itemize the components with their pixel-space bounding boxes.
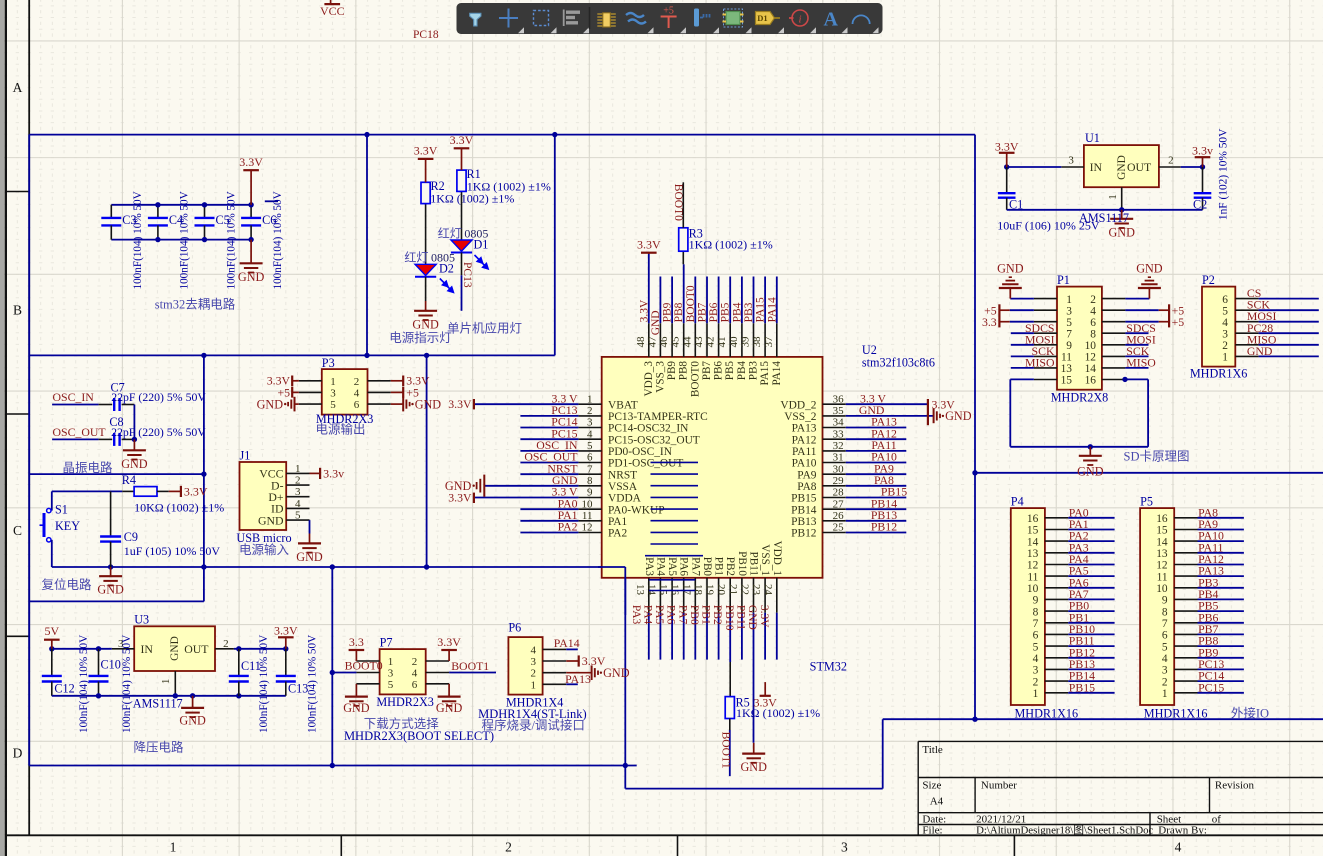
svg-text:2: 2 xyxy=(1033,676,1039,688)
U2 pin 3 PC14-OSC32_IN xyxy=(578,427,601,429)
power port 3.3V above P7 pin2 xyxy=(448,650,450,661)
svg-text:3.3V: 3.3V xyxy=(184,485,208,499)
svg-text:BOOT0: BOOT0 xyxy=(685,285,697,322)
svg-text:27: 27 xyxy=(833,498,845,510)
P7 pin row 2 leads xyxy=(356,672,379,674)
svg-text:5: 5 xyxy=(1066,317,1072,329)
svg-text:VSSA: VSSA xyxy=(608,481,638,493)
P5 pin 15 PA9 xyxy=(1174,529,1197,531)
svg-text:OSC_OUT: OSC_OUT xyxy=(53,425,107,439)
svg-text:A: A xyxy=(13,80,23,95)
svg-text:25: 25 xyxy=(833,522,845,534)
junction at 975,719 xyxy=(972,717,977,722)
svg-text:2: 2 xyxy=(587,405,593,417)
junction at 367,135 xyxy=(364,132,369,137)
svg-text:24: 24 xyxy=(762,584,774,596)
svg-text:GND: GND xyxy=(238,270,265,284)
J1 pin 4 ID xyxy=(286,507,309,509)
svg-text:38: 38 xyxy=(751,336,763,348)
svg-text:PA4: PA4 xyxy=(654,557,666,576)
svg-text:16: 16 xyxy=(1156,513,1168,525)
ground below P1 loop xyxy=(1089,447,1091,456)
stray wire stub right of C6 xyxy=(265,200,278,202)
svg-text:1KΩ (1002) ±1%: 1KΩ (1002) ±1% xyxy=(430,192,514,206)
svg-text:45: 45 xyxy=(670,336,682,348)
U2 pin 18 PB0 bottom xyxy=(706,578,708,613)
svg-text:Drawn By:: Drawn By: xyxy=(1158,825,1207,837)
svg-text:VDD_3: VDD_3 xyxy=(643,361,655,397)
svg-text:PC14-OSC32_IN: PC14-OSC32_IN xyxy=(608,423,688,435)
svg-text:7: 7 xyxy=(1162,618,1168,630)
svg-text:PB0: PB0 xyxy=(688,605,700,625)
U2 pin 37 PA14 top xyxy=(776,323,778,357)
regulator U1 AMS1117 xyxy=(1084,145,1159,187)
J1 pin 2 D- xyxy=(286,484,309,486)
svg-text:40: 40 xyxy=(728,336,740,348)
U2 pin 36 VDD_2 xyxy=(823,403,846,405)
U2 pin 44 BOOT0 top xyxy=(694,323,696,357)
svg-text:8: 8 xyxy=(1033,606,1039,618)
resistor R3 on BOOT0 column xyxy=(682,251,684,264)
svg-text:3.3V: 3.3V xyxy=(414,144,438,158)
svg-text:1uF (105) 10% 50V: 1uF (105) 10% 50V xyxy=(124,544,221,558)
P5 pin 2 PC14 xyxy=(1174,680,1197,682)
svg-text:D1: D1 xyxy=(757,13,767,23)
svg-text:电源指示灯: 电源指示灯 xyxy=(389,330,452,345)
U2 pin 9 VDDA xyxy=(578,497,601,499)
wire U3 input 5V rail xyxy=(52,648,112,650)
svg-text:GND: GND xyxy=(1247,344,1273,358)
svg-text:MHDR1X16: MHDR1X16 xyxy=(1144,707,1208,721)
P3 pin row 3 leads xyxy=(299,403,322,405)
svg-text:11: 11 xyxy=(1157,571,1168,583)
svg-text:GND: GND xyxy=(97,583,124,597)
P5 pin 16 PA8 xyxy=(1174,517,1197,519)
net label OSC_OUT with wire xyxy=(52,438,99,440)
svg-text:GND: GND xyxy=(650,310,662,335)
svg-text:22: 22 xyxy=(739,584,751,595)
svg-text:3.3V: 3.3V xyxy=(448,491,472,505)
P1 pin row 3-4 xyxy=(1034,309,1057,311)
net label OSC_IN with wire xyxy=(52,404,99,406)
P4 pin 16 PA0 xyxy=(1045,517,1068,519)
svg-text:4: 4 xyxy=(1222,317,1228,329)
power port 3.3V above U2 pin48 xyxy=(648,253,650,254)
U2 pin 40 PB4 top xyxy=(741,323,743,357)
wire S1 bottom xyxy=(51,540,53,567)
svg-text:GND: GND xyxy=(412,317,439,331)
svg-text:PB9: PB9 xyxy=(666,361,678,381)
P5 pin 1 PC15 xyxy=(1174,692,1197,694)
LED D2 arrows xyxy=(440,279,454,293)
svg-text:Size: Size xyxy=(922,780,941,792)
svg-text:43: 43 xyxy=(693,336,705,348)
wire S1 top to R4 xyxy=(51,491,53,510)
svg-text:VSS_1: VSS_1 xyxy=(759,544,771,576)
connector P6 MHDR1X4 xyxy=(508,637,542,695)
svg-text:U1: U1 xyxy=(1085,131,1100,145)
connector P7 MHDR2X3 xyxy=(380,649,426,694)
svg-text:9: 9 xyxy=(1033,595,1039,607)
power port 3.3 above P7 pin1 xyxy=(355,650,357,661)
svg-text:BOOT0: BOOT0 xyxy=(689,361,701,397)
svg-text:GND: GND xyxy=(343,701,370,715)
J1 pin 3 D+ xyxy=(286,496,309,498)
svg-text:OUT: OUT xyxy=(184,642,209,656)
svg-text:KEY: KEY xyxy=(55,519,80,533)
svg-text:31: 31 xyxy=(833,452,844,464)
P7 pin row 3 leads xyxy=(356,683,379,685)
ground below C6 xyxy=(250,240,252,264)
wire left border vertical xyxy=(28,135,30,766)
svg-text:Title: Title xyxy=(922,744,943,756)
capacitor C13 xyxy=(285,649,287,676)
wire rail y765 xyxy=(29,765,637,767)
wire U1 ground rail xyxy=(1007,209,1203,211)
svg-text:PA9: PA9 xyxy=(797,469,817,481)
P2 pin 1 GND xyxy=(1235,355,1258,357)
power port 5V xyxy=(51,640,53,649)
svg-text:C13: C13 xyxy=(288,682,308,696)
U2 pin 16 PA6 bottom xyxy=(683,578,685,613)
svg-text:PB4: PB4 xyxy=(731,302,743,322)
U3 pin 3 lead xyxy=(112,648,134,650)
U2 pin 25 PB12 xyxy=(823,532,846,534)
svg-text:12: 12 xyxy=(1027,560,1039,572)
svg-text:MHDR1X6: MHDR1X6 xyxy=(1190,367,1248,381)
svg-text:OSC_IN: OSC_IN xyxy=(53,390,95,404)
svg-text:1: 1 xyxy=(1066,294,1072,306)
U3 pin 2 lead xyxy=(215,648,234,650)
svg-text:3.3v: 3.3v xyxy=(323,467,344,481)
P4 pin 15 PA1 xyxy=(1045,529,1068,531)
svg-text:PB7: PB7 xyxy=(697,302,709,322)
svg-text:32: 32 xyxy=(833,440,844,452)
svg-text:红灯: 红灯 xyxy=(404,250,428,265)
svg-text:3: 3 xyxy=(1066,305,1072,317)
U2 pin 22 PB11 bottom xyxy=(753,578,755,613)
P1 signal rows left labels xyxy=(1011,332,1034,334)
junction C6 top xyxy=(248,202,253,207)
svg-text:4: 4 xyxy=(295,498,301,510)
P5 pin 7 PB6 xyxy=(1174,622,1197,624)
wire right bus vertical xyxy=(974,135,976,720)
svg-text:PA13: PA13 xyxy=(792,423,817,435)
svg-text:File:: File: xyxy=(922,825,942,837)
wire J1 GND down xyxy=(309,520,311,533)
svg-text:3.3v: 3.3v xyxy=(1192,144,1213,158)
ground below D2 xyxy=(425,301,427,311)
toolbar icon selection rect xyxy=(534,11,549,26)
junction dot C8 xyxy=(132,437,137,442)
wire D2 cathode to ground xyxy=(425,277,427,301)
P3 pin row 1 leads xyxy=(299,380,322,382)
P1 pin row 7-8 xyxy=(1034,332,1057,334)
svg-text:100nF(104) 10% 50V: 100nF(104) 10% 50V xyxy=(258,635,270,733)
ground below U3 xyxy=(192,696,194,708)
svg-text:AMS1117: AMS1117 xyxy=(133,697,183,711)
U2 pin 23 VSS_1 bottom xyxy=(764,578,766,613)
capacitor C1 xyxy=(1006,167,1008,193)
svg-text:13: 13 xyxy=(1027,548,1039,560)
svg-text:12: 12 xyxy=(1085,352,1097,364)
svg-text:电源输入: 电源输入 xyxy=(239,542,290,557)
power port 3.3V below U2 pins pointing down xyxy=(764,682,766,696)
wire U3 output rail xyxy=(234,648,286,650)
P5 pin 8 PB5 xyxy=(1174,610,1197,612)
svg-text:3.3: 3.3 xyxy=(349,635,364,649)
wire main 3.3V rail top xyxy=(29,134,975,136)
svg-text:15: 15 xyxy=(1027,525,1039,537)
svg-text:P3: P3 xyxy=(322,356,335,370)
svg-text:3: 3 xyxy=(1068,155,1074,167)
svg-text:5: 5 xyxy=(1162,641,1168,653)
P2 pin 2 MISO xyxy=(1235,344,1258,346)
power port 3.3V at U3 output xyxy=(285,637,287,649)
svg-text:5: 5 xyxy=(1033,641,1039,653)
svg-text:GND: GND xyxy=(415,397,442,411)
svg-text:PA2: PA2 xyxy=(608,528,628,540)
capacitor C7 horizontal xyxy=(99,404,113,406)
svg-text:P5: P5 xyxy=(1140,495,1153,509)
svg-text:1KΩ (1002) ±1%: 1KΩ (1002) ±1% xyxy=(689,238,773,252)
ground far left of U2 pin8 sideways xyxy=(483,475,485,497)
svg-text:8: 8 xyxy=(1162,606,1168,618)
resistor R4 horizontal xyxy=(122,490,134,492)
toolbar icon arc xyxy=(853,15,870,24)
P1 pin row 9-10 xyxy=(1034,344,1057,346)
svg-text:PC18: PC18 xyxy=(413,29,439,41)
P1 pin row 13-14 xyxy=(1034,367,1057,369)
power port 3.3V above R2 xyxy=(425,159,427,182)
svg-text:100nF(104) 10% 50V: 100nF(104) 10% 50V xyxy=(307,635,319,733)
power port 3.3V left of U1 xyxy=(1006,153,1008,167)
svg-text:PD0-OSC_IN: PD0-OSC_IN xyxy=(608,446,672,458)
junction at 555,135 xyxy=(552,132,557,137)
U2 pin 30 PA9 xyxy=(823,473,846,475)
svg-text:19: 19 xyxy=(704,584,716,596)
svg-text:VDD_2: VDD_2 xyxy=(780,399,816,411)
svg-text:10: 10 xyxy=(582,498,594,510)
svg-text:2: 2 xyxy=(1162,676,1168,688)
svg-text:C12: C12 xyxy=(54,682,74,696)
svg-text:2: 2 xyxy=(354,376,360,388)
svg-text:PB11: PB11 xyxy=(748,552,760,576)
svg-text:PB12: PB12 xyxy=(791,528,817,540)
svg-text:3.3V: 3.3V xyxy=(637,238,661,252)
svg-text:100nF(104) 10% 50V: 100nF(104) 10% 50V xyxy=(225,191,237,289)
svg-text:GND: GND xyxy=(258,513,284,527)
junction C5 bottom xyxy=(202,237,207,242)
svg-text:4: 4 xyxy=(1090,305,1096,317)
svg-text:PA3: PA3 xyxy=(630,605,642,625)
svg-text:D: D xyxy=(13,746,23,761)
svg-text:电源输出: 电源输出 xyxy=(315,422,365,437)
wire bus to P7 pin3 xyxy=(332,672,356,674)
U2 pin 1 VBAT xyxy=(578,403,601,405)
svg-text:C2: C2 xyxy=(1193,198,1207,212)
svg-text:2: 2 xyxy=(1222,340,1228,352)
toolbar icon filter funnel xyxy=(470,13,481,26)
wire D1 cathode down xyxy=(461,253,463,276)
connector P1 MHDR2X8 xyxy=(1057,287,1102,390)
svg-text:1: 1 xyxy=(1107,194,1119,200)
svg-text:PA5: PA5 xyxy=(666,557,678,576)
svg-text:P6: P6 xyxy=(508,621,521,635)
svg-text:3: 3 xyxy=(587,417,593,429)
junction at 427,355 xyxy=(424,353,429,358)
title block frame xyxy=(918,741,1323,835)
U2 pin 2 PC13-TAMPER-RTC xyxy=(578,415,601,417)
ground below J1 xyxy=(309,534,311,544)
svg-text:MHDR2X3: MHDR2X3 xyxy=(376,695,434,709)
svg-text:D:\AltiumDesigner18\图\Sheet1.S: D:\AltiumDesigner18\图\Sheet1.SchDoc xyxy=(976,824,1153,837)
U1 pin 1 lead xyxy=(1121,187,1123,210)
junction at 204,355 xyxy=(201,353,206,358)
svg-text:BOOT1: BOOT1 xyxy=(720,732,732,769)
P1 row1 wires to grounds xyxy=(1010,298,1034,300)
svg-text:PB6: PB6 xyxy=(713,361,725,381)
svg-text:5: 5 xyxy=(388,679,394,691)
U2 pin 33 PA12 xyxy=(823,438,846,440)
P5 pin 5 PB8 xyxy=(1174,645,1197,647)
U2 pin 28 PB15 xyxy=(823,497,846,499)
wire decoupling top rail xyxy=(111,204,251,206)
svg-text:VSS_3: VSS_3 xyxy=(654,361,666,393)
power port 3.3V above C6 xyxy=(250,170,252,205)
svg-text:GND: GND xyxy=(945,409,972,423)
P4 pin 10 PA6 xyxy=(1045,587,1068,589)
svg-text:PB3: PB3 xyxy=(748,361,760,381)
svg-text:MISO: MISO xyxy=(1025,355,1055,369)
svg-text:PB11: PB11 xyxy=(735,605,747,630)
P5 pin 4 PB9 xyxy=(1174,657,1197,659)
U2 pin 26 PB13 xyxy=(823,520,846,522)
svg-text:GND: GND xyxy=(179,713,206,727)
P5 pin 14 PA10 xyxy=(1174,540,1197,542)
U2 pin 20 PB2 bottom xyxy=(729,578,731,613)
ground above P1 left xyxy=(1009,288,1011,299)
wire vertical x625.3 xyxy=(624,567,626,789)
svg-text:4: 4 xyxy=(1033,653,1039,665)
svg-text:+5: +5 xyxy=(663,6,674,17)
capacitor C2 xyxy=(1202,167,1204,193)
U2 pin 39 PB3 top xyxy=(753,323,755,357)
svg-text:PA10: PA10 xyxy=(792,458,817,470)
svg-text:MHDR2X8: MHDR2X8 xyxy=(1051,391,1109,405)
P4 pin 14 PA2 xyxy=(1045,540,1068,542)
toolbar icon no-ERC xyxy=(792,10,808,26)
svg-text:36: 36 xyxy=(833,393,845,405)
svg-text:3.3V: 3.3V xyxy=(437,635,461,649)
svg-text:16: 16 xyxy=(1085,375,1097,387)
svg-text:PA4: PA4 xyxy=(641,605,653,625)
svg-text:PA5: PA5 xyxy=(653,605,665,625)
svg-text:15: 15 xyxy=(1061,375,1073,387)
svg-text:23: 23 xyxy=(750,584,762,596)
svg-text:37: 37 xyxy=(763,336,775,348)
svg-text:10KΩ (1002) ±1%: 10KΩ (1002) ±1% xyxy=(134,501,224,515)
power port 3.3v at J1 pin1 xyxy=(310,472,321,474)
svg-text:PA7: PA7 xyxy=(689,557,701,576)
svg-text:PA15: PA15 xyxy=(759,361,771,386)
svg-text:6: 6 xyxy=(412,679,418,691)
toolbar separator xyxy=(589,7,591,29)
svg-text:R4: R4 xyxy=(122,473,136,487)
svg-text:复位电路: 复位电路 xyxy=(41,577,92,592)
J1 pin 1 VCC xyxy=(286,472,309,474)
svg-text:GND: GND xyxy=(169,636,181,661)
U3 pin 1 lead xyxy=(174,671,176,696)
svg-text:13: 13 xyxy=(1156,548,1168,560)
svg-text:Number: Number xyxy=(981,780,1017,792)
svg-text:stm32去耦电路: stm32去耦电路 xyxy=(155,297,236,312)
svg-text:4: 4 xyxy=(1175,840,1182,855)
svg-text:13: 13 xyxy=(634,584,646,596)
U2 pin 10 PA0-WKUP xyxy=(578,508,601,510)
svg-text:1: 1 xyxy=(531,679,537,691)
svg-text:48: 48 xyxy=(635,336,647,348)
toolbar icon pin xyxy=(694,9,699,27)
toolbar icon designator D1 tag xyxy=(756,12,775,25)
capacitor C3 xyxy=(110,205,112,218)
P4 pin 6 PB10 xyxy=(1045,633,1068,635)
svg-text:P2: P2 xyxy=(1202,273,1215,287)
ground below U1 xyxy=(1121,210,1123,219)
U2 pin 14 PA4 bottom xyxy=(659,578,661,613)
wire P6 pin1 xyxy=(566,683,578,685)
U2 pin 42 PB6 top xyxy=(718,323,720,357)
junction C4 bottom xyxy=(155,237,160,242)
svg-text:3: 3 xyxy=(1222,328,1228,340)
P4 pin 3 PB13 xyxy=(1045,668,1068,670)
svg-text:26: 26 xyxy=(833,510,845,522)
wire reset rail over U2 body xyxy=(598,566,625,568)
U2 pin 43 PB7 top xyxy=(706,323,708,357)
svg-text:PB13: PB13 xyxy=(791,516,817,528)
svg-text:4: 4 xyxy=(587,428,593,440)
wire U1 output xyxy=(1181,166,1203,168)
capacitor C5 xyxy=(204,205,206,218)
svg-text:BOOT1: BOOT1 xyxy=(451,659,489,673)
svg-text:2: 2 xyxy=(531,668,537,680)
svg-text:P1: P1 xyxy=(1057,273,1070,287)
svg-text:MISO: MISO xyxy=(1126,355,1156,369)
J1 pin 5 GND xyxy=(286,519,309,521)
U2 pin 17 PA7 bottom xyxy=(694,578,696,613)
svg-text:IN: IN xyxy=(141,642,154,656)
svg-text:46: 46 xyxy=(658,336,670,348)
svg-text:PB15: PB15 xyxy=(791,493,817,505)
svg-text:BOOT0: BOOT0 xyxy=(672,184,684,221)
svg-text:GND: GND xyxy=(257,397,284,411)
svg-text:4: 4 xyxy=(354,387,360,399)
power port 3.3V at P6 pin3 xyxy=(566,660,579,662)
wire decoupling bottom rail xyxy=(111,239,251,241)
P4 pin 4 PB12 xyxy=(1045,657,1068,659)
MCU U2 stm32f103c8t6 body xyxy=(602,357,823,578)
P2 pin 5 SCK xyxy=(1235,309,1258,311)
svg-text:12: 12 xyxy=(1156,560,1168,572)
P5 pin 3 PC13 xyxy=(1174,668,1197,670)
U2 pin 21 PB10 bottom xyxy=(741,578,743,613)
connector P4 MHDR1X16 xyxy=(1011,508,1045,705)
svg-text:4: 4 xyxy=(531,644,537,656)
P6 pin 1 lead xyxy=(543,683,567,685)
svg-text:100nF(104) 10% 50V: 100nF(104) 10% 50V xyxy=(78,635,90,733)
svg-text:5: 5 xyxy=(1222,305,1228,317)
svg-text:100nF(104) 10% 50V: 100nF(104) 10% 50V xyxy=(121,635,133,733)
